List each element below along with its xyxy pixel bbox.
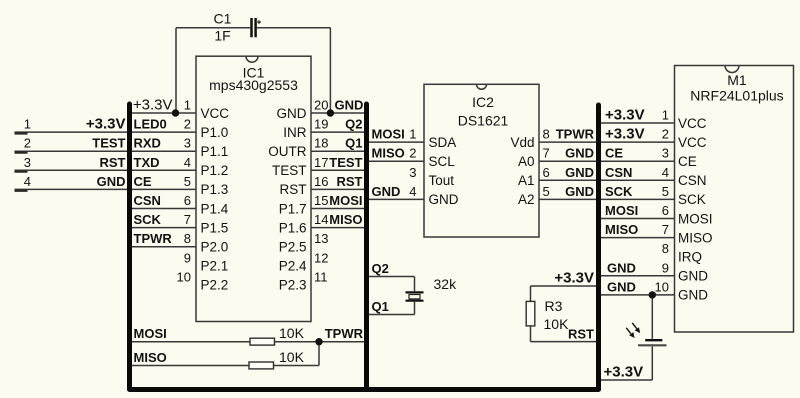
svg-text:SCL: SCL [429, 154, 456, 169]
svg-text:TEST: TEST [92, 136, 125, 151]
svg-text:MISO: MISO [678, 230, 713, 245]
svg-text:MISO: MISO [372, 146, 405, 161]
svg-text:MISO: MISO [134, 350, 167, 365]
svg-text:GND: GND [565, 165, 594, 180]
svg-text:7: 7 [662, 222, 669, 237]
svg-text:+3.3V: +3.3V [604, 364, 644, 381]
svg-text:GND: GND [429, 192, 459, 207]
svg-text:P1.4: P1.4 [201, 201, 229, 216]
svg-text:RST: RST [337, 174, 363, 189]
svg-text:DS1621: DS1621 [458, 113, 509, 129]
svg-text:20: 20 [314, 98, 328, 113]
svg-text:14: 14 [314, 212, 328, 227]
svg-text:1: 1 [662, 108, 669, 123]
svg-text:2: 2 [662, 127, 669, 142]
svg-text:32k: 32k [434, 276, 458, 292]
svg-text:GND: GND [607, 279, 636, 294]
svg-text:8: 8 [543, 127, 550, 142]
svg-text:5: 5 [184, 174, 191, 189]
svg-text:MISO: MISO [605, 222, 638, 237]
svg-text:MOSI: MOSI [134, 326, 167, 341]
svg-text:VCC: VCC [678, 135, 707, 150]
svg-text:P2.1: P2.1 [201, 259, 229, 274]
svg-text:10K: 10K [279, 325, 305, 341]
svg-text:IRQ: IRQ [678, 250, 702, 265]
svg-text:TPWR: TPWR [325, 326, 364, 341]
svg-text:2: 2 [184, 117, 191, 132]
svg-text:5: 5 [543, 184, 550, 199]
svg-text:GND: GND [335, 98, 364, 113]
svg-text:8: 8 [662, 241, 669, 256]
svg-text:1: 1 [184, 98, 191, 113]
svg-text:4: 4 [184, 155, 191, 170]
svg-text:SCK: SCK [134, 212, 162, 227]
svg-text:TPWR: TPWR [556, 127, 595, 142]
svg-text:CSN: CSN [134, 193, 161, 208]
svg-text:A2: A2 [518, 192, 535, 207]
svg-text:C1: C1 [214, 11, 232, 27]
svg-text:7: 7 [184, 212, 191, 227]
svg-text:+3.3V: +3.3V [605, 126, 645, 143]
svg-text:MOSI: MOSI [678, 211, 713, 226]
svg-text:P2.4: P2.4 [279, 259, 307, 274]
svg-text:10: 10 [655, 279, 669, 294]
svg-text:CSN: CSN [678, 173, 707, 188]
svg-text:+3.3V: +3.3V [86, 116, 126, 133]
svg-text:RST: RST [100, 155, 126, 170]
svg-text:+3.3V: +3.3V [554, 270, 594, 287]
svg-text:GND: GND [607, 260, 636, 275]
svg-text:16: 16 [314, 174, 328, 189]
svg-text:2: 2 [409, 146, 416, 161]
svg-text:6: 6 [662, 203, 669, 218]
svg-text:CE: CE [605, 146, 623, 161]
svg-text:3: 3 [24, 155, 31, 170]
svg-text:CSN: CSN [605, 165, 632, 180]
svg-text:A0: A0 [518, 154, 535, 169]
svg-text:P1.2: P1.2 [201, 163, 229, 178]
svg-text:3: 3 [409, 165, 416, 180]
svg-text:18: 18 [314, 136, 328, 151]
svg-text:10K: 10K [544, 316, 570, 332]
svg-text:Q2: Q2 [372, 261, 389, 276]
svg-text:INR: INR [283, 125, 307, 140]
svg-text:TPWR: TPWR [134, 231, 173, 246]
svg-text:LED0: LED0 [134, 117, 167, 132]
svg-text:MOSI: MOSI [605, 203, 638, 218]
svg-text:P1.1: P1.1 [201, 144, 229, 159]
svg-text:Vdd: Vdd [510, 135, 534, 150]
svg-text:P1.7: P1.7 [279, 201, 307, 216]
svg-text:P2.2: P2.2 [201, 278, 229, 293]
svg-text:Q1: Q1 [345, 136, 362, 151]
svg-text:mps430g2553: mps430g2553 [209, 77, 298, 93]
svg-text:Q1: Q1 [372, 299, 389, 314]
svg-text:GND: GND [277, 106, 307, 121]
svg-text:P1.6: P1.6 [279, 220, 307, 235]
svg-text:P2.5: P2.5 [279, 240, 307, 255]
svg-text:CE: CE [678, 154, 697, 169]
svg-text:6: 6 [184, 193, 191, 208]
svg-text:IC2: IC2 [472, 94, 494, 110]
svg-text:VCC: VCC [201, 106, 230, 121]
svg-text:Tout: Tout [429, 173, 455, 188]
svg-text:GND: GND [97, 174, 126, 189]
svg-text:P1.3: P1.3 [201, 182, 229, 197]
svg-text:NRF24L01plus: NRF24L01plus [690, 88, 783, 104]
svg-text:11: 11 [314, 269, 328, 284]
svg-text:TXD: TXD [134, 155, 160, 170]
svg-text:MOSI: MOSI [372, 127, 405, 142]
svg-text:MOSI: MOSI [329, 193, 362, 208]
svg-text:RXD: RXD [134, 136, 161, 151]
svg-text:19: 19 [314, 117, 328, 132]
svg-text:TEST: TEST [272, 163, 307, 178]
svg-text:5: 5 [662, 184, 669, 199]
svg-text:P2.3: P2.3 [279, 278, 307, 293]
svg-text:4: 4 [24, 174, 31, 189]
svg-text:SCK: SCK [678, 192, 706, 207]
svg-text:9: 9 [662, 260, 669, 275]
svg-text:GND: GND [372, 184, 401, 199]
svg-text:SCK: SCK [605, 184, 633, 199]
svg-text:1: 1 [24, 117, 31, 132]
svg-text:MISO: MISO [329, 212, 362, 227]
svg-text:10K: 10K [279, 349, 305, 365]
svg-text:Q2: Q2 [345, 117, 362, 132]
svg-text:RST: RST [280, 182, 307, 197]
svg-text:GND: GND [678, 288, 708, 303]
svg-text:SDA: SDA [429, 135, 457, 150]
svg-text:17: 17 [314, 155, 328, 170]
svg-text:4: 4 [409, 184, 416, 199]
svg-text:+3.3V: +3.3V [133, 97, 173, 114]
svg-text:P1.5: P1.5 [201, 220, 229, 235]
svg-text:GND: GND [565, 184, 594, 199]
svg-text:TEST: TEST [329, 155, 362, 170]
svg-text:M1: M1 [727, 72, 747, 88]
svg-text:1F: 1F [214, 28, 230, 44]
svg-text:GND: GND [565, 146, 594, 161]
svg-text:2: 2 [24, 136, 31, 151]
svg-text:P1.0: P1.0 [201, 125, 229, 140]
svg-text:13: 13 [314, 231, 328, 246]
svg-text:GND: GND [678, 269, 708, 284]
svg-text:R3: R3 [545, 298, 563, 314]
svg-text:RST: RST [568, 326, 594, 341]
svg-text:OUTR: OUTR [268, 144, 306, 159]
svg-text:12: 12 [314, 250, 328, 265]
svg-text:3: 3 [184, 136, 191, 151]
svg-text:+3.3V: +3.3V [605, 107, 645, 124]
svg-text:8: 8 [184, 231, 191, 246]
svg-text:7: 7 [543, 146, 550, 161]
svg-text:P2.0: P2.0 [201, 240, 229, 255]
svg-text:6: 6 [543, 165, 550, 180]
svg-text:9: 9 [184, 250, 191, 265]
svg-text:1: 1 [409, 127, 416, 142]
svg-text:CE: CE [134, 174, 152, 189]
svg-text:A1: A1 [518, 173, 535, 188]
svg-text:VCC: VCC [678, 116, 707, 131]
svg-text:10: 10 [177, 269, 191, 284]
svg-text:4: 4 [662, 165, 669, 180]
svg-text:3: 3 [662, 146, 669, 161]
svg-text:15: 15 [314, 193, 328, 208]
